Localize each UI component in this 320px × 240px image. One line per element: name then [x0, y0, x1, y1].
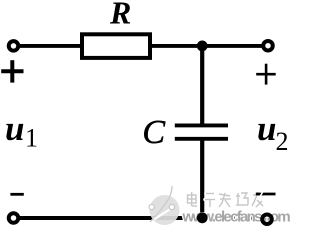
svg-text:u: u	[257, 109, 276, 148]
capacitor C top plate	[175, 123, 228, 127]
svg-text:u: u	[5, 109, 24, 148]
terminal input + (top-left)	[9, 41, 19, 51]
svg-text:R: R	[109, 0, 131, 30]
wire top-left (input to resistor)	[18, 44, 82, 48]
terminal output - (bottom-right)	[262, 214, 272, 224]
capacitor C bottom plate	[175, 137, 228, 141]
minus sign left	[10, 193, 23, 196]
node junction top	[197, 41, 208, 52]
wire bottom (return path)	[18, 216, 263, 220]
svg-text:C: C	[142, 114, 165, 151]
wire capacitor branch lower	[200, 139, 204, 218]
watermark text chinese	[188, 192, 265, 207]
plus sign left	[1, 60, 23, 82]
svg-text:1: 1	[25, 124, 38, 153]
resistor R	[82, 34, 150, 58]
svg-text:2: 2	[276, 127, 289, 156]
wire capacitor branch upper	[200, 46, 204, 125]
terminal input - (bottom-left)	[9, 213, 19, 223]
terminal output + (top-right)	[263, 41, 273, 51]
label u1	[5, 109, 38, 153]
minus sign right	[256, 191, 276, 198]
node junction bottom	[197, 212, 208, 223]
plus sign right	[256, 64, 276, 85]
watermark logo	[149, 186, 179, 225]
label u2	[257, 109, 289, 156]
wire top-right (resistor to output terminal)	[150, 44, 263, 48]
